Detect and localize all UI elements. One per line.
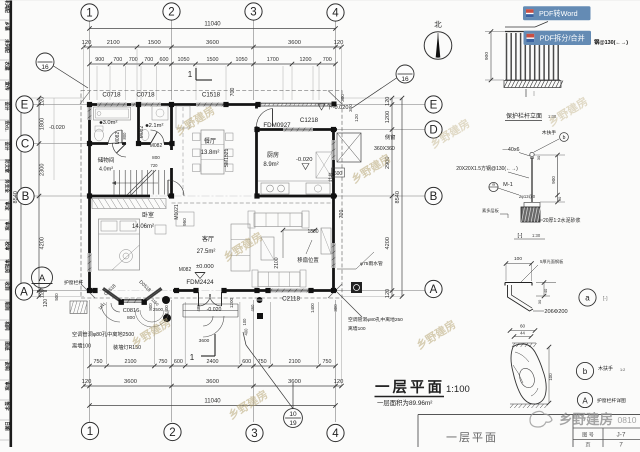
svg-text:300: 300 xyxy=(340,94,345,102)
svg-text:［-］: ［-］ xyxy=(600,295,610,302)
svg-text:A: A xyxy=(20,287,28,299)
svg-text:签字: 签字 xyxy=(4,400,11,411)
svg-text:农建: 农建 xyxy=(4,60,11,71)
svg-text:900: 900 xyxy=(484,52,490,60)
svg-text:120: 120 xyxy=(385,289,391,298)
svg-text:φ75雨水管: φ75雨水管 xyxy=(360,260,383,267)
svg-text:20厚1:2水泥砂浆: 20厚1:2水泥砂浆 xyxy=(543,217,581,224)
svg-text:离墙100: 离墙100 xyxy=(348,325,366,332)
svg-text:b: b xyxy=(583,367,588,376)
svg-text:安d1.: 安d1. xyxy=(4,120,11,131)
svg-text:120: 120 xyxy=(40,289,46,298)
svg-text:900: 900 xyxy=(551,176,556,184)
svg-text:44: 44 xyxy=(520,331,525,336)
svg-text:2φ12@0: 2φ12@0 xyxy=(519,194,536,199)
svg-text:720: 720 xyxy=(151,163,159,168)
svg-text:离墙100: 离墙100 xyxy=(72,342,91,350)
svg-text:30: 30 xyxy=(557,196,562,201)
svg-text:校审: 校审 xyxy=(4,241,11,251)
svg-text:M-1: M-1 xyxy=(503,182,513,188)
svg-text:A: A xyxy=(430,284,438,296)
svg-text:B: B xyxy=(22,191,30,203)
svg-text:750: 750 xyxy=(158,359,167,365)
svg-text:206Φ200: 206Φ200 xyxy=(544,309,567,315)
svg-text:120: 120 xyxy=(82,379,92,385)
svg-text:侧窗: 侧窗 xyxy=(385,133,395,141)
svg-text:900: 900 xyxy=(95,57,104,63)
svg-text:下-0.020: 下-0.020 xyxy=(327,104,348,111)
svg-text:收到: 收到 xyxy=(4,281,11,291)
svg-text:500: 500 xyxy=(54,293,59,301)
svg-text:10: 10 xyxy=(289,411,297,418)
svg-text:1200: 1200 xyxy=(300,57,312,63)
svg-text:3.0m²: 3.0m² xyxy=(103,120,118,126)
svg-text:M082: M082 xyxy=(139,126,145,139)
svg-text:C1518: C1518 xyxy=(202,92,221,99)
svg-text:3600: 3600 xyxy=(206,379,219,385)
svg-text:A: A xyxy=(582,397,588,406)
svg-text:±0.000: ±0.000 xyxy=(196,264,214,270)
svg-text:保护栏杆立面: 保护栏杆立面 xyxy=(506,112,542,120)
svg-text:1800: 1800 xyxy=(40,118,46,130)
svg-text:FDM2424: FDM2424 xyxy=(186,279,214,286)
svg-text:A: A xyxy=(39,273,46,284)
svg-text:卧室: 卧室 xyxy=(142,211,154,219)
svg-text:2.1m²: 2.1m² xyxy=(149,123,164,129)
svg-text:图 号: 图 号 xyxy=(582,432,594,439)
svg-text:钢@130(←→): 钢@130(←→) xyxy=(594,38,628,46)
svg-text:100: 100 xyxy=(242,318,247,326)
svg-text:1050: 1050 xyxy=(236,57,248,63)
svg-text:1500: 1500 xyxy=(148,40,161,46)
svg-text:700: 700 xyxy=(339,210,345,219)
svg-text:客厅: 客厅 xyxy=(202,235,214,243)
svg-text:700: 700 xyxy=(230,88,236,97)
svg-text:1200: 1200 xyxy=(385,111,391,123)
svg-text:950: 950 xyxy=(182,218,187,226)
svg-text:700: 700 xyxy=(323,57,332,63)
svg-text:[-]: [-] xyxy=(518,233,523,239)
svg-text:C0718: C0718 xyxy=(102,92,121,99)
svg-text:护窗栏杆: 护窗栏杆 xyxy=(64,279,83,286)
svg-text:1700: 1700 xyxy=(267,57,279,63)
svg-text:未列配: 未列配 xyxy=(4,38,11,53)
svg-text:SM1521: SM1521 xyxy=(224,148,230,167)
svg-text:2400: 2400 xyxy=(207,359,219,365)
svg-text:800: 800 xyxy=(148,303,153,311)
svg-text:-0.020: -0.020 xyxy=(296,157,312,163)
svg-text:M082: M082 xyxy=(115,132,121,145)
svg-text:务支全: 务支全 xyxy=(4,179,11,193)
svg-text:防文室: 防文室 xyxy=(4,159,11,173)
svg-text:120: 120 xyxy=(82,40,92,46)
svg-text:说明: 说明 xyxy=(4,361,11,371)
svg-text:100: 100 xyxy=(548,373,553,381)
svg-text:120: 120 xyxy=(43,299,49,308)
svg-text:设计: 设计 xyxy=(4,141,11,151)
svg-text:16: 16 xyxy=(401,76,409,83)
svg-text:厨房: 厨房 xyxy=(267,151,279,159)
svg-text:700: 700 xyxy=(129,57,138,63)
svg-text:3600: 3600 xyxy=(199,338,210,344)
svg-text:600: 600 xyxy=(174,359,183,365)
svg-text:8540: 8540 xyxy=(395,191,401,203)
svg-text:B: B xyxy=(430,191,438,203)
svg-text:3600: 3600 xyxy=(124,379,137,385)
svg-text:1200: 1200 xyxy=(229,297,234,308)
svg-text:C2118: C2118 xyxy=(282,296,300,303)
svg-text:1400: 1400 xyxy=(164,305,169,315)
svg-text:灶台: 灶台 xyxy=(327,172,334,182)
svg-text:D: D xyxy=(429,125,437,137)
svg-text:4: 4 xyxy=(332,8,339,20)
svg-text:3600: 3600 xyxy=(206,40,219,46)
svg-text:800: 800 xyxy=(152,155,160,160)
svg-text:750: 750 xyxy=(94,359,103,365)
svg-text:0810: 0810 xyxy=(618,415,637,425)
svg-text:3600: 3600 xyxy=(288,40,301,46)
svg-text:一层平面: 一层平面 xyxy=(375,379,445,396)
svg-text:1: 1 xyxy=(188,70,193,79)
svg-text:2: 2 xyxy=(169,427,175,439)
svg-text:800: 800 xyxy=(122,132,127,140)
svg-text:1: 1 xyxy=(87,426,93,438)
svg-text:素多层板: 素多层板 xyxy=(482,207,500,214)
svg-text:800: 800 xyxy=(127,315,135,321)
svg-text:J-7: J-7 xyxy=(616,432,625,439)
svg-text:b: b xyxy=(563,135,566,141)
svg-text:一层平面: 一层平面 xyxy=(446,431,498,444)
svg-text:审核: 审核 xyxy=(4,381,11,391)
svg-text:19: 19 xyxy=(289,420,297,427)
svg-text:2300: 2300 xyxy=(40,164,46,176)
svg-text:1:100: 1:100 xyxy=(446,384,470,395)
svg-text:限则: 限则 xyxy=(4,301,11,311)
svg-text:100: 100 xyxy=(514,256,522,262)
svg-text:14.06m²: 14.06m² xyxy=(132,224,154,230)
svg-text:120: 120 xyxy=(40,97,46,106)
svg-text:C0718: C0718 xyxy=(136,92,155,99)
svg-text:600: 600 xyxy=(334,171,343,177)
svg-text:4: 4 xyxy=(332,428,339,440)
svg-text:2: 2 xyxy=(168,7,174,19)
svg-text:1:2: 1:2 xyxy=(620,368,625,372)
svg-text:60: 60 xyxy=(520,324,526,329)
svg-text:餐厅: 餐厅 xyxy=(204,137,216,145)
svg-text:1500: 1500 xyxy=(207,57,219,63)
svg-text:木扶手: 木扶手 xyxy=(542,129,557,136)
svg-text:2100: 2100 xyxy=(274,257,280,268)
svg-text:700: 700 xyxy=(113,57,122,63)
svg-text:700: 700 xyxy=(144,57,153,63)
svg-text:审批阅: 审批阅 xyxy=(4,259,11,273)
svg-text:C1218: C1218 xyxy=(300,117,319,124)
svg-text:3600: 3600 xyxy=(288,379,301,385)
svg-text:30: 30 xyxy=(537,299,542,304)
svg-text:C0816: C0816 xyxy=(123,308,139,314)
svg-text:朱鸿配: 朱鸿配 xyxy=(4,0,11,13)
svg-text:480: 480 xyxy=(196,304,201,312)
svg-text:审核: 审核 xyxy=(4,221,11,231)
svg-text:2100: 2100 xyxy=(125,359,137,365)
svg-text:页: 页 xyxy=(585,442,590,448)
svg-text:移扇位置: 移扇位置 xyxy=(297,256,319,264)
svg-text:7: 7 xyxy=(619,442,623,448)
svg-text:C: C xyxy=(21,139,29,151)
svg-text:600: 600 xyxy=(160,57,169,63)
svg-text:30: 30 xyxy=(536,155,541,160)
svg-text:E: E xyxy=(21,100,29,112)
svg-text:4.0m²: 4.0m² xyxy=(99,167,113,173)
svg-text:-0.020: -0.020 xyxy=(207,307,222,313)
svg-text:PDF转Word: PDF转Word xyxy=(539,9,578,18)
svg-text:360X360: 360X360 xyxy=(374,146,395,152)
svg-text:2500: 2500 xyxy=(153,307,164,312)
svg-text:11040: 11040 xyxy=(204,399,221,405)
svg-text:3: 3 xyxy=(251,428,257,440)
svg-text:乡野建房: 乡野建房 xyxy=(559,411,613,427)
svg-text:2100: 2100 xyxy=(107,40,120,46)
svg-text:a: a xyxy=(585,294,590,303)
svg-text:120: 120 xyxy=(334,379,344,385)
svg-text:20X20X1.5方钢@130(←→): 20X20X1.5方钢@130(←→) xyxy=(456,165,518,172)
svg-text:M082: M082 xyxy=(150,143,163,149)
svg-text:4200: 4200 xyxy=(40,237,46,249)
svg-text:1: 1 xyxy=(86,8,92,20)
svg-text:750: 750 xyxy=(323,359,332,365)
svg-text:一层面积为89.96m²: 一层面积为89.96m² xyxy=(377,398,432,407)
svg-text:审定: 审定 xyxy=(4,201,11,211)
svg-text:PDF拆分/合并: PDF拆分/合并 xyxy=(540,34,585,43)
svg-text:相同: 相同 xyxy=(4,321,11,331)
svg-text:4200: 4200 xyxy=(385,237,391,249)
svg-text:E: E xyxy=(430,100,438,112)
svg-text:5厚光面钢板: 5厚光面钢板 xyxy=(540,258,564,265)
svg-text:乡镇: 乡镇 xyxy=(4,21,11,31)
svg-text:日期: 日期 xyxy=(4,421,11,431)
svg-text:11040: 11040 xyxy=(204,22,221,28)
svg-text:a: a xyxy=(492,182,495,187)
svg-text:600: 600 xyxy=(242,359,251,365)
svg-text:400: 400 xyxy=(244,328,249,336)
svg-text:13.8m²: 13.8m² xyxy=(201,150,220,156)
svg-text:1:30: 1:30 xyxy=(532,233,541,238)
svg-text:120: 120 xyxy=(385,97,391,106)
svg-text:设计: 设计 xyxy=(4,101,11,111)
svg-text:300: 300 xyxy=(333,304,338,312)
svg-text:空调管洞φ80孔中离地2500: 空调管洞φ80孔中离地2500 xyxy=(72,330,134,338)
svg-text:宣传: 宣传 xyxy=(4,81,11,91)
svg-text:8.9m²: 8.9m² xyxy=(263,162,278,168)
svg-text:1400: 1400 xyxy=(310,303,315,313)
svg-text:木扶手: 木扶手 xyxy=(598,365,613,372)
svg-text:460: 460 xyxy=(250,304,255,312)
svg-text:空调管洞φ80孔中离地250: 空调管洞φ80孔中离地250 xyxy=(348,316,403,323)
svg-text:M1021: M1021 xyxy=(174,204,180,220)
svg-text:1050: 1050 xyxy=(178,57,190,63)
svg-text:40: 40 xyxy=(543,288,548,293)
svg-text:FDM0927: FDM0927 xyxy=(263,122,291,129)
svg-text:120: 120 xyxy=(334,40,344,46)
svg-text:1: 1 xyxy=(190,353,195,362)
svg-text:3: 3 xyxy=(250,7,256,19)
svg-text:120: 120 xyxy=(354,114,359,122)
svg-text:北: 北 xyxy=(434,20,442,29)
svg-text:-0.020: -0.020 xyxy=(49,125,65,131)
svg-text:16: 16 xyxy=(41,64,49,71)
svg-text:储物间: 储物间 xyxy=(98,156,115,164)
svg-text:M082: M082 xyxy=(179,267,192,273)
svg-text:—40x6: —40x6 xyxy=(502,147,519,153)
svg-text:2100: 2100 xyxy=(289,359,301,365)
svg-text:27.5m²: 27.5m² xyxy=(197,249,216,255)
svg-text:图纸: 图纸 xyxy=(4,341,11,351)
svg-text:护窗栏杆详图: 护窗栏杆详图 xyxy=(597,397,626,404)
